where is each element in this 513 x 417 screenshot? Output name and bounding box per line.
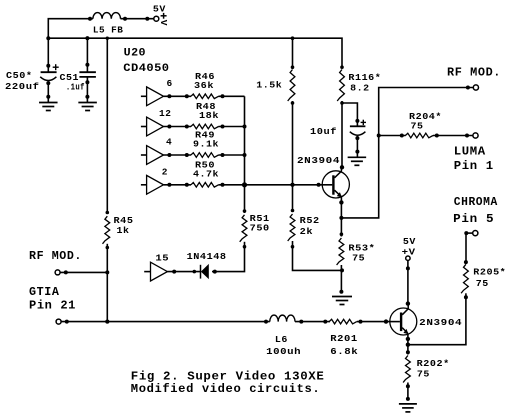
- svg-text:R201: R201: [330, 333, 358, 344]
- svg-text:5V: 5V: [153, 3, 166, 14]
- svg-text:12: 12: [159, 108, 171, 119]
- svg-text:9.1k: 9.1k: [193, 139, 219, 150]
- svg-text:RF MOD.: RF MOD.: [447, 65, 501, 79]
- svg-text:75: 75: [352, 252, 365, 263]
- svg-text:10uf: 10uf: [310, 126, 337, 137]
- svg-text:75: 75: [411, 120, 424, 131]
- svg-text:R205*: R205*: [473, 267, 506, 278]
- svg-text:LUMA: LUMA: [454, 145, 486, 159]
- svg-text:1.5k: 1.5k: [256, 80, 282, 91]
- svg-text:4.7k: 4.7k: [193, 169, 219, 180]
- svg-text:L6: L6: [275, 334, 288, 345]
- svg-text:2: 2: [162, 167, 168, 178]
- svg-text:6: 6: [167, 78, 173, 89]
- svg-text:L5 FB: L5 FB: [93, 25, 124, 36]
- svg-text:Pin 1: Pin 1: [454, 159, 494, 173]
- svg-text:1k: 1k: [117, 225, 130, 236]
- svg-text:5V: 5V: [403, 236, 416, 247]
- svg-text:220uf: 220uf: [5, 81, 40, 92]
- svg-text:18k: 18k: [199, 110, 219, 121]
- svg-text:CD4050: CD4050: [123, 63, 169, 75]
- svg-text:R116*: R116*: [348, 72, 381, 83]
- svg-text:GTIA: GTIA: [29, 285, 60, 299]
- svg-text:6.8k: 6.8k: [330, 346, 358, 357]
- svg-text:U20: U20: [124, 48, 146, 60]
- svg-text:8.2: 8.2: [350, 83, 370, 94]
- svg-text:Pin 5: Pin 5: [453, 212, 494, 226]
- svg-text:.1uf: .1uf: [66, 82, 85, 93]
- svg-text:R52: R52: [300, 215, 320, 226]
- svg-text:75: 75: [476, 278, 489, 289]
- svg-text:C50*: C50*: [6, 70, 33, 81]
- svg-text:Modified video circuits.: Modified video circuits.: [131, 382, 320, 396]
- svg-text:2N3904: 2N3904: [419, 317, 462, 328]
- svg-text:75: 75: [417, 368, 430, 379]
- svg-text:CHROMA: CHROMA: [454, 195, 498, 209]
- svg-text:1N4148: 1N4148: [187, 251, 227, 262]
- svg-text:Pin 21: Pin 21: [29, 299, 76, 313]
- svg-text:100uh: 100uh: [266, 346, 301, 357]
- svg-text:V: V: [158, 20, 169, 26]
- svg-text:2N3904: 2N3904: [297, 155, 340, 166]
- svg-text:36k: 36k: [194, 80, 214, 91]
- svg-text:4: 4: [166, 137, 172, 148]
- svg-text:750: 750: [250, 223, 270, 234]
- svg-text:15: 15: [155, 252, 169, 263]
- svg-text:RF MOD.: RF MOD.: [29, 249, 82, 263]
- svg-text:2k: 2k: [300, 226, 314, 237]
